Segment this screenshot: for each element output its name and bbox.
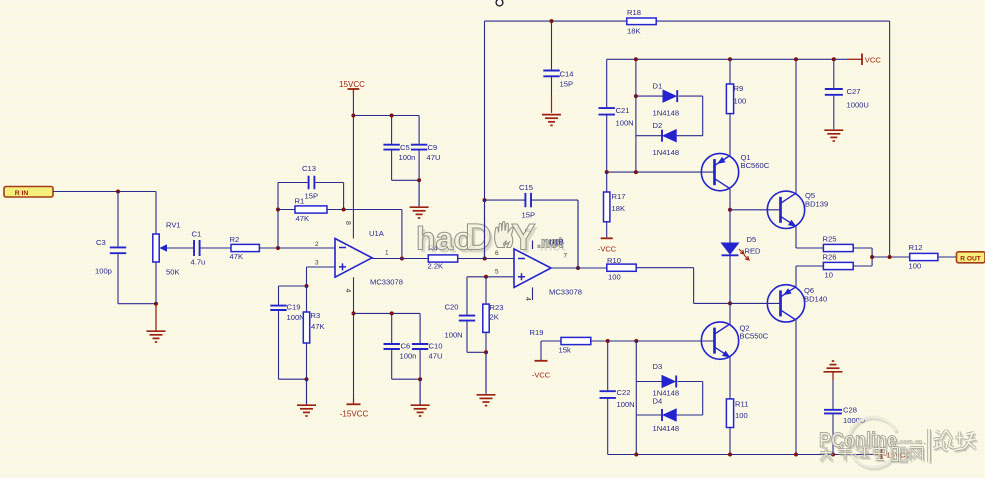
- svg-text:C15: C15: [519, 183, 533, 192]
- wire R11 to rail: [729, 428, 731, 455]
- wire C3 branch: [117, 192, 119, 304]
- wire R1 branch: [278, 209, 402, 211]
- node R1 right: [342, 208, 346, 212]
- svg-text:4: 4: [524, 297, 531, 301]
- transistor Q5: [767, 191, 828, 229]
- capacitor C27: [825, 59, 869, 129]
- wire Q5 emitter to R25: [796, 226, 823, 248]
- wire D4 branch: [636, 414, 702, 416]
- svg-text:10: 10: [825, 271, 833, 280]
- node C14 top: [550, 19, 554, 23]
- resistor R9: [726, 59, 746, 155]
- op-amp U1B designator: [549, 238, 564, 247]
- pin number 5: [495, 269, 499, 276]
- wire bias node line: [607, 171, 715, 173]
- svg-text:C6: C6: [401, 342, 411, 351]
- power -VCC at R19: [532, 361, 551, 380]
- wire diode chain2 left vertical: [635, 341, 637, 455]
- wire C15 left vertical: [484, 21, 486, 258]
- ground below C9: [410, 180, 429, 218]
- pin number 1: [385, 250, 389, 257]
- svg-text:C13: C13: [302, 164, 316, 173]
- power 15VCC: [339, 80, 365, 95]
- resistor R25: [823, 235, 854, 252]
- svg-text:4.7u: 4.7u: [191, 258, 206, 267]
- node supply branch: [351, 114, 355, 118]
- svg-text:C3: C3: [96, 238, 106, 247]
- port R OUT: [957, 252, 985, 263]
- svg-text:BD140: BD140: [804, 295, 827, 304]
- svg-text:C27: C27: [847, 87, 861, 96]
- svg-text:R17: R17: [612, 192, 626, 201]
- op-amp U1A: [335, 229, 403, 287]
- wire diode chain left vertical: [635, 59, 637, 172]
- svg-text:1N4148: 1N4148: [653, 109, 680, 118]
- svg-text:.com.cn: .com.cn: [898, 439, 923, 446]
- wire R19 left to -VCC: [541, 341, 561, 360]
- node C10 bottom: [418, 377, 422, 381]
- wire LED cathode: [729, 255, 731, 303]
- node R3 bottom: [305, 377, 309, 381]
- port R IN: [4, 187, 53, 198]
- wire R10 to driver node: [636, 268, 780, 304]
- svg-text:C21: C21: [616, 106, 630, 115]
- pin number 4: [344, 289, 351, 293]
- resistor R19: [530, 328, 591, 355]
- svg-text:MC33078: MC33078: [549, 288, 582, 297]
- svg-text:100N: 100N: [445, 331, 463, 340]
- node R23 top: [484, 275, 488, 279]
- capacitor C5: [383, 116, 415, 181]
- wire C5 C9 bottom: [392, 179, 420, 181]
- svg-text:15P: 15P: [305, 192, 319, 201]
- svg-text:47U: 47U: [429, 352, 443, 361]
- svg-text:100: 100: [735, 411, 748, 420]
- wire R IN to RV1: [53, 191, 156, 193]
- pin number 3: [315, 260, 319, 267]
- svg-text:R18: R18: [627, 8, 641, 17]
- wire U1A output to R4: [372, 258, 428, 260]
- node bias left: [605, 170, 609, 174]
- wire top feedback rail: [485, 20, 890, 22]
- node C5 top: [390, 114, 394, 118]
- svg-text:2.2K: 2.2K: [428, 262, 444, 271]
- power -15VCC bottom rail: [882, 449, 912, 460]
- svg-text:D5: D5: [747, 235, 757, 244]
- svg-text:-VCC: -VCC: [532, 371, 551, 380]
- node U1A output: [400, 257, 404, 261]
- wire feedback left vertical: [277, 183, 279, 249]
- node C15 left: [483, 198, 487, 202]
- wire C6 C10 bottom: [392, 378, 420, 380]
- svg-text:C20: C20: [445, 303, 459, 312]
- capacitor C15: [519, 183, 535, 220]
- svg-text:BC560C: BC560C: [741, 161, 770, 170]
- svg-text:R OUT: R OUT: [960, 255, 981, 262]
- svg-text:18K: 18K: [612, 204, 626, 213]
- transistor Q2: [701, 322, 768, 359]
- svg-text:C9: C9: [428, 143, 438, 152]
- capacitor C22: [600, 341, 635, 455]
- wire right feedback vertical: [889, 21, 891, 257]
- svg-text:2K: 2K: [490, 313, 499, 322]
- node negative branch: [352, 311, 356, 315]
- svg-text:C14: C14: [560, 70, 574, 79]
- svg-text:Y: Y: [511, 217, 536, 258]
- svg-text:15VCC: 15VCC: [339, 80, 365, 89]
- svg-text:1N4148: 1N4148: [653, 424, 680, 433]
- node U1B output: [576, 266, 580, 270]
- node C9 bottom: [417, 178, 421, 182]
- svg-text:C19: C19: [287, 303, 301, 312]
- wire RV1 top: [155, 192, 157, 235]
- capacitor C6: [384, 313, 417, 379]
- diode D4: [653, 397, 680, 434]
- power VCC: [862, 54, 881, 66]
- wire R25 right: [853, 248, 872, 266]
- wire Q2 emitter to R11: [729, 357, 731, 399]
- wire Q5 base: [730, 209, 781, 211]
- wire decoupling branch top: [353, 115, 419, 117]
- svg-text:D3: D3: [653, 362, 663, 371]
- node R23 bottom: [484, 350, 488, 354]
- node bias diode tap: [634, 170, 638, 174]
- capacitor C14: [543, 21, 573, 113]
- resistor R12: [909, 243, 938, 271]
- node feedback takeoff: [888, 255, 892, 259]
- svg-text:5: 5: [495, 269, 499, 276]
- svg-text:C1: C1: [192, 230, 202, 239]
- ground below RV1: [147, 304, 166, 342]
- resistor R3: [303, 286, 324, 379]
- svg-text:R IN: R IN: [15, 190, 29, 197]
- wire D2 branch: [636, 135, 703, 137]
- watermark haoDIY.net: [416, 217, 566, 261]
- svg-text:R1: R1: [295, 197, 305, 206]
- resistor R23: [483, 277, 504, 353]
- svg-text:18K: 18K: [627, 27, 641, 36]
- ground below R3: [297, 379, 316, 416]
- node U1B inverting: [483, 257, 487, 261]
- node input junction: [116, 190, 120, 194]
- wire U1A positive supply: [352, 95, 354, 239]
- wire C1 to R2: [201, 247, 232, 249]
- power -VCC below R17: [598, 238, 617, 253]
- node Q5 base tap: [728, 208, 732, 212]
- svg-text:R2: R2: [230, 235, 240, 244]
- wire Q5 collector: [795, 59, 797, 193]
- svg-text:100: 100: [909, 262, 922, 271]
- node driver mid: [728, 301, 732, 305]
- wire pin5 input: [467, 276, 514, 278]
- svg-text:R25: R25: [823, 235, 837, 244]
- node C6 top: [390, 311, 394, 315]
- node inverting input: [276, 246, 280, 250]
- wire decoupling branch bottom: [354, 312, 421, 314]
- wire bottom rail: [608, 454, 882, 456]
- svg-text:U1A: U1A: [369, 229, 385, 238]
- svg-text:C5: C5: [400, 143, 410, 152]
- svg-text:R11: R11: [735, 400, 748, 409]
- svg-text:47K: 47K: [230, 252, 244, 261]
- ground below C14: [542, 115, 561, 126]
- capacitor C3: [95, 238, 126, 276]
- svg-text:4: 4: [344, 289, 351, 293]
- svg-text:MC33078: MC33078: [370, 278, 403, 287]
- node D chain bottom: [634, 453, 638, 457]
- svg-text:15P: 15P: [560, 80, 574, 89]
- wire U1B power stubs: [532, 241, 534, 301]
- pin number 2: [315, 241, 319, 248]
- svg-text:VCC: VCC: [865, 56, 882, 65]
- svg-text:C22: C22: [617, 388, 631, 397]
- svg-text:D2: D2: [653, 121, 663, 130]
- svg-text:RED: RED: [745, 247, 762, 256]
- wire D3 branch: [636, 382, 702, 416]
- pin number 8 U1B: [523, 229, 530, 233]
- svg-text:47K: 47K: [311, 322, 325, 331]
- pin number 6: [495, 250, 499, 257]
- svg-text:100N: 100N: [616, 119, 634, 128]
- potentiometer RV1: [153, 221, 193, 277]
- svg-text:C28: C28: [843, 406, 857, 415]
- wire segments over watermark: [485, 200, 579, 268]
- watermark PConline forum: [819, 417, 978, 469]
- wire R4 to U1B: [458, 258, 514, 260]
- wire R12 to port: [938, 256, 957, 258]
- svg-text:R12: R12: [909, 243, 923, 252]
- transistor Q1: [701, 153, 769, 243]
- node R11 bottom: [728, 453, 732, 457]
- wire Q2 base: [591, 340, 715, 342]
- transistor Q6: [767, 285, 827, 322]
- resistor R26: [823, 253, 854, 280]
- svg-text:6: 6: [495, 250, 499, 257]
- capacitor C9: [411, 116, 441, 181]
- resistor R11: [726, 399, 748, 428]
- node Q6 collector bottom: [794, 453, 798, 457]
- wire Q2 collector: [729, 303, 731, 324]
- wire output node to R12: [872, 256, 910, 258]
- svg-text:RV1: RV1: [166, 221, 181, 230]
- svg-text:15k: 15k: [559, 346, 571, 355]
- wire C20 bottom: [467, 351, 486, 353]
- svg-text:100: 100: [734, 97, 747, 106]
- svg-text:47U: 47U: [427, 153, 441, 162]
- wire C13 branch: [278, 183, 344, 210]
- svg-text:BD139: BD139: [805, 200, 828, 209]
- svg-text:-VCC: -VCC: [598, 245, 617, 254]
- capacitor C21: [599, 59, 634, 172]
- svg-text:U1B: U1B: [549, 238, 564, 247]
- svg-text:R19: R19: [530, 328, 544, 337]
- wire VCC rail: [607, 58, 862, 60]
- wire U1B output: [551, 267, 607, 269]
- capacitor C13: [302, 164, 318, 201]
- node output mid: [870, 255, 874, 259]
- svg-text:2: 2: [315, 241, 319, 248]
- wire C15 branch: [485, 200, 579, 268]
- svg-text:100p: 100p: [95, 267, 112, 276]
- node R9 top: [728, 57, 732, 61]
- svg-text:R9: R9: [734, 84, 744, 93]
- capacitor C20: [445, 277, 476, 353]
- LED D5: [722, 235, 762, 260]
- svg-text:D1: D1: [653, 82, 663, 91]
- pin number 8: [344, 221, 351, 225]
- node D1 anode: [634, 94, 638, 98]
- wire pin3 input: [279, 267, 336, 286]
- resistor R17: [604, 172, 626, 237]
- capacitor C28: [824, 380, 865, 455]
- svg-text:8: 8: [344, 221, 351, 225]
- capacitor C1: [191, 230, 206, 267]
- wire feedback to output: [401, 210, 403, 259]
- node C28 bottom: [831, 453, 835, 457]
- node pin3 junction: [305, 284, 309, 288]
- svg-text:1N4148: 1N4148: [653, 148, 680, 157]
- svg-text:D4: D4: [653, 397, 663, 406]
- wire C3 bottom to RV1 bottom: [118, 303, 156, 305]
- svg-text:R10: R10: [607, 256, 621, 265]
- svg-text:R23: R23: [490, 303, 504, 312]
- svg-text:-15VCC: -15VCC: [340, 410, 369, 419]
- wire R2 to inverting node: [259, 247, 335, 249]
- ground below C27: [824, 130, 843, 141]
- ground above C28: [824, 361, 843, 380]
- wire R26 left to Q6 emitter: [796, 266, 823, 287]
- wire RV1 bottom segment: [155, 262, 157, 304]
- diode D1: [653, 82, 680, 118]
- op-amp U1B: [514, 237, 582, 297]
- svg-text:100n: 100n: [400, 352, 417, 361]
- svg-text:100N: 100N: [617, 400, 635, 409]
- resistor R4: [428, 244, 458, 271]
- resistor R1: [295, 197, 328, 224]
- svg-text:R3: R3: [311, 311, 321, 320]
- svg-text:47K: 47K: [296, 214, 310, 223]
- ground below R23: [477, 352, 496, 405]
- stray glyph top: [496, 0, 503, 6]
- capacitor C10: [412, 313, 443, 379]
- node Q5 collector top: [794, 57, 798, 61]
- svg-text:100n: 100n: [399, 153, 416, 162]
- pin number 4 U1B: [524, 297, 531, 301]
- wire D1 branch: [636, 96, 703, 136]
- wire C19 branch: [279, 286, 307, 379]
- capacitor C19: [270, 303, 304, 323]
- svg-text:D: D: [465, 217, 492, 258]
- svg-text:1: 1: [385, 250, 389, 257]
- node diode chain top: [634, 57, 638, 61]
- power -15VCC: [340, 399, 369, 419]
- wire U1A negative supply: [353, 277, 355, 399]
- wire Q6 collector: [795, 320, 797, 455]
- resistor R2: [230, 235, 260, 261]
- svg-text:R26: R26: [823, 253, 837, 262]
- svg-text:100: 100: [608, 273, 621, 282]
- node diode chain2 top: [634, 339, 638, 343]
- node R1 left: [276, 208, 280, 212]
- svg-text:3: 3: [315, 260, 319, 267]
- diode D2: [653, 121, 680, 157]
- node C22 top: [606, 339, 610, 343]
- svg-text:50K: 50K: [166, 268, 180, 277]
- svg-text:1000U: 1000U: [847, 101, 869, 110]
- svg-text:100N: 100N: [287, 313, 305, 322]
- svg-text:C10: C10: [429, 342, 443, 351]
- ground below C10: [411, 379, 430, 416]
- svg-text:BC550C: BC550C: [740, 332, 769, 341]
- node RV1 bottom: [154, 302, 158, 306]
- diode D3: [653, 362, 680, 398]
- resistor R10: [607, 256, 636, 282]
- node C27 top: [832, 57, 836, 61]
- pin number 7: [564, 253, 568, 260]
- resistor R18: [627, 8, 656, 36]
